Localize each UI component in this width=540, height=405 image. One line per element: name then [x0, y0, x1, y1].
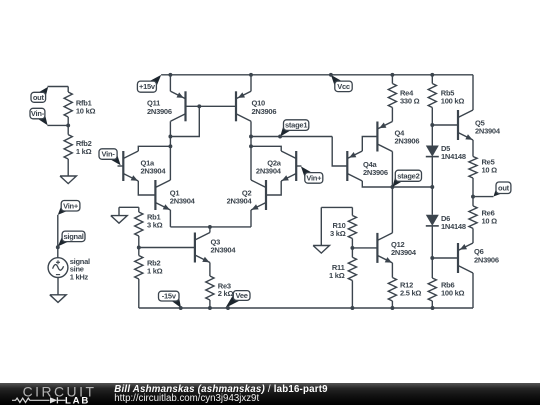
wire Q3 base [139, 247, 195, 249]
wire Rb1 top [119, 206, 139, 208]
wire Q2 emitter [250, 210, 252, 227]
resistor Rb5 [431, 75, 433, 84]
transistor Q4a 2N3906 [346, 151, 348, 181]
wire Q2a base stub [296, 165, 301, 167]
flag Vin- (Q1a base) [108, 153, 121, 166]
wire R10 top [321, 206, 352, 208]
transistor Q11 2N3906 [184, 91, 186, 121]
voltage source V1 signal sine 1kHz [48, 258, 68, 278]
svg-text:2N3904: 2N3904 [211, 246, 237, 255]
ground [50, 295, 66, 303]
node [249, 73, 253, 77]
wire Q12 collector [391, 187, 393, 233]
node [208, 306, 212, 310]
wire Q10 emitter [250, 75, 252, 92]
resistor R10 [351, 207, 353, 215]
node stage2 [390, 185, 394, 189]
transistor Q12 2N3904 [376, 233, 378, 263]
node [168, 135, 172, 139]
wire Q11 emitter [169, 75, 171, 92]
resistor Rb6 [431, 258, 433, 278]
svg-text:1 kHz: 1 kHz [70, 272, 89, 281]
svg-text:2N3904: 2N3904 [475, 127, 501, 136]
wire [57, 278, 59, 295]
wire Q11 base tie [170, 106, 199, 136]
flag signal [58, 235, 71, 246]
node [431, 306, 435, 310]
resistor Rb1 [138, 207, 140, 212]
wire Q4 collector [391, 152, 393, 188]
wire -15v/Vee bottom rail [139, 307, 473, 309]
wire Q1a collector [138, 146, 170, 151]
svg-text:330 Ω: 330 Ω [400, 96, 420, 105]
transistor Q6 2N3906 [457, 243, 459, 273]
transistor Q2a 2N3904 [295, 151, 297, 181]
wire Q6 collector [472, 273, 474, 308]
flag out (left) [37, 87, 49, 99]
wire Q11/Q10 base link [199, 105, 236, 107]
svg-text:10 Ω: 10 Ω [482, 216, 498, 225]
svg-text:Vee: Vee [236, 291, 248, 300]
svg-text:Vcc: Vcc [337, 82, 350, 91]
node Q5 base [430, 123, 434, 127]
wire Q5 collector from rail [472, 75, 474, 110]
transistor Q1a 2N3904 [122, 151, 124, 181]
footer bar [0, 383, 540, 405]
svg-text:2N3904: 2N3904 [391, 248, 417, 257]
svg-text:2N3904: 2N3904 [256, 167, 282, 176]
svg-text:2N3906: 2N3906 [395, 137, 420, 146]
wire Q4a emitter to Q4 base [362, 137, 377, 152]
resistor R11 [351, 248, 353, 257]
flag out (right) [494, 187, 506, 197]
node Q6 base [430, 256, 434, 260]
node Rfb1/Rfb2 junction [66, 123, 70, 127]
wire Q1a base stub [118, 165, 124, 167]
node [168, 73, 172, 77]
svg-text:stage1: stage1 [285, 121, 307, 130]
flag -15v [170, 295, 181, 308]
resistor Rb2 [138, 248, 140, 256]
transistor Q1 2N3904 [154, 180, 156, 210]
transistor Q5 2N3904 [457, 110, 459, 140]
ground [118, 207, 120, 215]
wire stage2 [392, 186, 432, 188]
node [390, 73, 394, 77]
svg-text:1N4148: 1N4148 [441, 222, 466, 231]
svg-text:http://circuitlab.com/cyn3j943: http://circuitlab.com/cyn3j943jxz9t [114, 393, 259, 404]
flag Vcc [331, 75, 344, 88]
diode D6 1N4148 [426, 215, 439, 226]
wire [57, 215, 59, 258]
node Rb1/Rb2/Q3 base [137, 246, 141, 250]
svg-text:Vin+: Vin+ [63, 201, 79, 210]
svg-text:1 kΩ: 1 kΩ [329, 271, 345, 280]
flag Vee [225, 294, 242, 308]
flag Vin+ (source) [58, 205, 70, 215]
wire [48, 86, 69, 88]
wire stage1 to Q4a base [332, 137, 347, 167]
svg-text:-15v: -15v [162, 292, 177, 301]
node out [471, 195, 475, 199]
resistor Re3 [209, 263, 211, 277]
flag stage1 [280, 124, 292, 137]
resistor Re6 [472, 197, 474, 206]
transistor Q10 2N3906 [235, 91, 237, 121]
diode D5 1N4148 [426, 146, 439, 157]
wire left collector bus [169, 121, 171, 180]
svg-text:out: out [33, 93, 45, 102]
resistor Rfb2 [67, 125, 69, 134]
svg-text:1 kΩ: 1 kΩ [76, 147, 92, 156]
svg-text:2N3904: 2N3904 [141, 167, 167, 176]
flag Vin- (left) [36, 112, 48, 125]
wire ground stem [320, 207, 322, 245]
node [430, 185, 434, 189]
resistor Re4 [391, 75, 393, 84]
node [179, 306, 183, 310]
svg-text:100 kΩ: 100 kΩ [441, 289, 465, 298]
wire Q12 base [352, 247, 377, 249]
svg-text:Vin-: Vin- [102, 150, 116, 159]
wire out node [473, 196, 493, 198]
node tail/Q3 collector [208, 225, 212, 229]
svg-text:2N3906: 2N3906 [252, 107, 277, 116]
wire [431, 157, 433, 215]
svg-text:10 Ω: 10 Ω [482, 165, 498, 174]
transistor Q2 2N3904 [265, 180, 267, 210]
svg-text:2N3904: 2N3904 [170, 197, 196, 206]
svg-text:1 kΩ: 1 kΩ [147, 267, 163, 276]
node R10/R11/Q12 base [350, 246, 354, 250]
wire [47, 124, 68, 126]
svg-text:Vin+: Vin+ [306, 173, 322, 182]
svg-text:3 kΩ: 3 kΩ [330, 229, 346, 238]
wire Q2a emitter to Q2 base [266, 181, 281, 195]
svg-text:+15v: +15v [139, 82, 156, 91]
svg-text:Vin-: Vin- [31, 109, 45, 118]
wire Q6 base [432, 257, 458, 259]
wire Q3 collector [209, 227, 211, 233]
flag +15v [147, 75, 161, 88]
ground [60, 176, 76, 184]
transistor Q4 2N3906 [376, 122, 378, 152]
node [350, 306, 354, 310]
ground [313, 246, 329, 254]
wire right collector bus [250, 121, 252, 180]
resistor Rfb1 [67, 87, 69, 93]
svg-text:signal: signal [63, 232, 83, 241]
node [249, 135, 253, 139]
wire Q2a collector [251, 146, 281, 151]
svg-text:1N4148: 1N4148 [441, 152, 466, 161]
svg-text:2N3906: 2N3906 [474, 256, 499, 265]
svg-text:100 kΩ: 100 kΩ [441, 96, 465, 105]
svg-text:2N3906: 2N3906 [147, 107, 172, 116]
transistor Q3 2N3904 [194, 233, 196, 263]
svg-text:out: out [498, 183, 510, 192]
svg-text:2 kΩ: 2 kΩ [218, 289, 234, 298]
node [329, 73, 333, 77]
svg-text:stage2: stage2 [397, 171, 419, 180]
wire [431, 125, 433, 146]
svg-text:LAB: LAB [65, 395, 90, 405]
node [390, 306, 394, 310]
wire Q4a collector [362, 181, 392, 187]
wire stage1 [251, 136, 332, 138]
wire Q5 base [432, 124, 458, 126]
node [226, 306, 230, 310]
svg-text:3 kΩ: 3 kΩ [147, 220, 163, 229]
svg-text:2N3904: 2N3904 [227, 197, 253, 206]
node [430, 73, 434, 77]
node [168, 144, 172, 148]
node stage1 [278, 135, 282, 139]
wire Q1a emitter to Q1 base [138, 181, 155, 195]
resistor Re5 [472, 140, 474, 157]
wire tail [170, 226, 251, 228]
wire [431, 226, 433, 258]
svg-text:10 kΩ: 10 kΩ [76, 107, 96, 116]
resistor R12 [391, 263, 393, 278]
node signal tap [56, 245, 60, 249]
svg-text:2.5 kΩ: 2.5 kΩ [400, 289, 421, 298]
wire Q1 emitter [169, 210, 171, 227]
node [249, 144, 253, 148]
flag Vin+ (Q2a base) [301, 166, 314, 179]
wire +15v/Vcc top rail [161, 74, 473, 76]
flag stage2 [393, 175, 405, 187]
svg-text:2N3906: 2N3906 [363, 168, 388, 177]
node [197, 104, 201, 108]
